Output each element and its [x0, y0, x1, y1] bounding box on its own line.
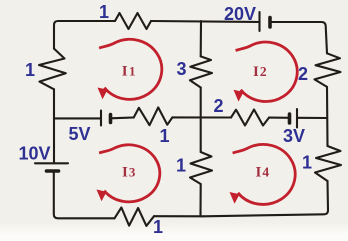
mesh current loop I2 arrow: [236, 42, 298, 101]
svg-text:20V: 20V: [224, 4, 256, 24]
wire center vertical top: [200, 21, 202, 56]
resistor R center-top (3 ohm): [190, 56, 212, 87]
resistor R mid-right (2 ohm): [231, 110, 269, 126]
resistor R center-bottom (1 ohm): [190, 152, 212, 184]
wire mid row left: [54, 117, 101, 119]
svg-text:I2: I2: [253, 64, 267, 80]
battery 5V plates: [100, 111, 102, 126]
arrowhead I2: [234, 90, 244, 102]
wire center vertical bottom: [199, 184, 201, 216]
wire mid row right: [297, 117, 327, 119]
svg-text:2: 2: [298, 64, 308, 84]
wire top-right with corner: [270, 22, 327, 53]
battery 20V plates: [258, 12, 260, 31]
resistor R bottom (1 ohm): [115, 208, 155, 226]
wire left middle (below resistor to battery): [53, 89, 55, 163]
svg-text:1: 1: [25, 60, 35, 80]
battery 3V plates: [288, 114, 292, 123]
svg-text:I3: I3: [122, 165, 136, 181]
svg-text:3: 3: [176, 59, 186, 79]
svg-text:1: 1: [176, 156, 186, 176]
wire bottom-left with corner: [54, 171, 115, 218]
resistor R left (1 ohm): [39, 49, 66, 90]
resistor R right-top (2 ohm): [315, 53, 341, 87]
wire mid row after 5V: [111, 116, 134, 119]
svg-text:1: 1: [153, 217, 163, 237]
arrowhead I3: [97, 190, 107, 202]
wire right-bottom with corner: [204, 181, 328, 216]
svg-text:I4: I4: [256, 165, 270, 181]
svg-text:1: 1: [159, 126, 169, 146]
svg-text:1: 1: [99, 2, 109, 22]
svg-text:10V: 10V: [18, 144, 50, 164]
mesh current loop I3 arrow: [99, 145, 160, 202]
svg-text:I1: I1: [122, 64, 136, 80]
mesh current loop I1 arrow: [99, 39, 162, 99]
wire center vertical middle: [200, 88, 202, 153]
svg-text:5V: 5V: [68, 124, 90, 144]
wire mid row center: [172, 116, 231, 118]
battery 10V plates: [35, 162, 68, 164]
wire bottom center stub: [154, 215, 204, 217]
wire top-left with corner: [54, 21, 115, 49]
arrowhead I1: [98, 88, 108, 100]
wire right middle: [326, 87, 329, 146]
svg-text:2: 2: [213, 96, 223, 116]
svg-text:1: 1: [302, 153, 312, 173]
wire mid row before 3V: [269, 117, 290, 119]
resistor R mid-left (1 ohm): [134, 107, 173, 125]
wire top middle: [151, 21, 260, 22]
svg-text:3V: 3V: [283, 126, 305, 146]
resistor R right-bottom (1 ohm): [315, 146, 341, 181]
arrowhead I4: [230, 192, 240, 204]
mesh current loop I4 arrow: [233, 144, 296, 204]
resistor R top-left (1 ohm): [115, 13, 151, 29]
